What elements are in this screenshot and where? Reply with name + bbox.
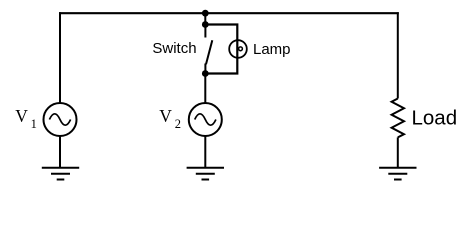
ground (V1) <box>42 168 79 180</box>
wire right column (bus to load) <box>397 12 399 98</box>
wire V1 to ground <box>59 136 61 168</box>
wire load to ground <box>397 137 399 168</box>
source V1 (AC) <box>44 103 77 136</box>
svg-text:Lamp: Lamp <box>253 41 291 58</box>
wire lamp branch bottom <box>205 58 237 74</box>
ground (Load) <box>379 168 416 180</box>
svg-text:Switch: Switch <box>152 40 196 57</box>
wire bottom node to V2 <box>204 74 206 104</box>
wire bus junction down to parallel top node <box>204 13 206 24</box>
ground (V2) <box>187 168 224 180</box>
svg-text:Load: Load <box>412 107 458 130</box>
wire left column (bus to V1) <box>59 12 61 103</box>
wire lamp branch top <box>205 25 237 41</box>
svg-text:1: 1 <box>31 117 37 131</box>
lamp L1 <box>229 40 247 58</box>
wire V2 to ground <box>204 136 206 168</box>
svg-text:V: V <box>15 106 28 126</box>
svg-text:2: 2 <box>175 117 181 131</box>
node parallel bottom junction <box>202 70 209 77</box>
source V2 (AC) <box>189 103 222 136</box>
svg-text:V: V <box>159 106 172 126</box>
wire top bus <box>59 12 399 14</box>
node bus junction (top of V2 branch) <box>202 10 209 17</box>
resistor Load <box>392 99 404 138</box>
switch SW1 (open) <box>205 25 212 74</box>
node parallel top junction <box>202 21 209 28</box>
